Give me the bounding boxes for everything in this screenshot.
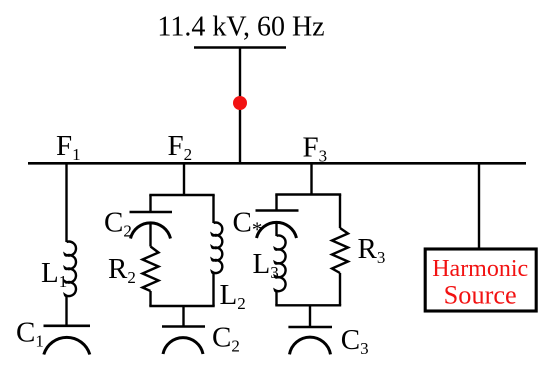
svg-text:L2: L2 <box>220 279 246 313</box>
svg-text:L1: L1 <box>41 257 67 291</box>
bus wire <box>28 162 526 165</box>
svg-text:C1: C1 <box>16 317 44 351</box>
wire loop2 top <box>149 194 214 196</box>
svg-text:F1: F1 <box>56 130 81 164</box>
wire branch F2 stub <box>183 163 185 195</box>
svg-text:L3: L3 <box>253 248 279 282</box>
svg-text:C2: C2 <box>212 322 240 356</box>
wire loop3 right upper <box>339 195 341 229</box>
wire branch F3 stub <box>310 163 312 194</box>
wire harmonic source <box>478 163 480 249</box>
svg-text:11.4 kV, 60 Hz: 11.4 kV, 60 Hz <box>157 12 324 43</box>
capacitor C3 <box>288 327 332 354</box>
svg-text:C2: C2 <box>104 206 132 240</box>
node PCC (red dot) <box>233 96 247 110</box>
svg-text:F2: F2 <box>168 130 193 164</box>
inductor L1 <box>65 242 76 296</box>
wire stub to C3 <box>309 305 311 327</box>
wire loop3 top <box>275 193 341 195</box>
wire <box>275 291 277 305</box>
wire branch F1 <box>65 163 67 242</box>
svg-text:R2: R2 <box>108 253 136 287</box>
svg-text:Harmonic: Harmonic <box>432 256 528 282</box>
wire <box>65 296 67 326</box>
svg-text:F3: F3 <box>303 132 328 166</box>
wire <box>275 222 277 236</box>
wire <box>149 291 151 306</box>
harmonic source box <box>425 249 536 311</box>
wire loop3 bottom <box>275 304 341 306</box>
capacitor C* <box>256 211 299 239</box>
resistor R2 <box>143 247 159 292</box>
svg-text:Source: Source <box>444 281 517 310</box>
wire <box>339 273 341 305</box>
svg-text:C3: C3 <box>341 324 369 358</box>
wire feed <box>239 48 241 164</box>
wire stub to C2 bottom <box>182 306 184 327</box>
wire loop2 bottom <box>149 305 214 307</box>
wire loop2 right upper <box>212 195 214 223</box>
capacitor C2 top <box>130 212 173 239</box>
source bar <box>194 46 286 49</box>
inductor L2 <box>212 223 222 274</box>
resistor R3 <box>332 228 348 273</box>
capacitor C2 bottom <box>162 327 205 355</box>
wire <box>149 223 151 247</box>
inductor L3 <box>275 235 286 291</box>
wire loop3 left upper <box>275 195 277 211</box>
wire loop2 left upper <box>149 195 151 212</box>
capacitor C1 <box>44 326 91 355</box>
svg-text:R3: R3 <box>358 233 386 267</box>
wire <box>212 273 214 306</box>
